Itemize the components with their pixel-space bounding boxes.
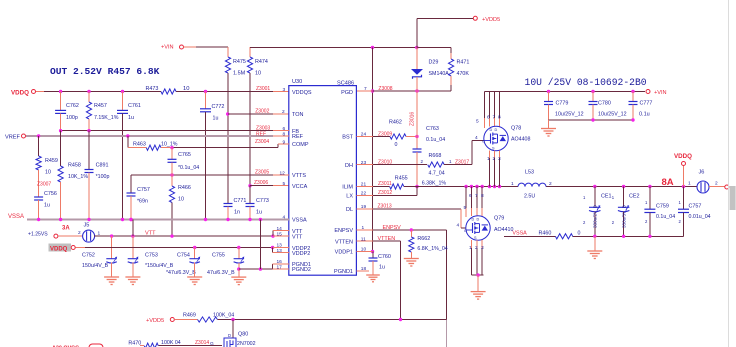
svg-text:C780: C780: [598, 101, 611, 107]
svg-text:23: 23: [361, 160, 367, 166]
svg-text:3: 3: [498, 156, 501, 162]
inductor L53: [511, 170, 552, 200]
port +VIN top: [161, 44, 196, 50]
wire VCCA line Z3006: [248, 180, 288, 187]
svg-text:G: G: [482, 139, 485, 143]
svg-text:G: G: [464, 229, 467, 233]
transistor Q78 AO4408: [476, 92, 530, 187]
wire PGND1 right: [356, 266, 369, 272]
node VSSA right: [512, 230, 527, 236]
svg-text:CE1: CE1: [601, 194, 612, 200]
svg-text:C779: C779: [556, 101, 569, 107]
svg-text:VSSA: VSSA: [512, 230, 527, 236]
svg-text:U30: U30: [292, 79, 302, 85]
svg-text:14: 14: [277, 226, 283, 232]
wire VDDQ bottom: [85, 243, 289, 254]
svg-text:R475: R475: [233, 59, 246, 65]
svg-text:BST: BST: [342, 135, 353, 141]
svg-text:10: 10: [361, 247, 367, 253]
svg-text:PGND1: PGND1: [334, 269, 353, 275]
svg-text:5: 5: [464, 205, 467, 211]
node VSSA rail: [8, 214, 289, 221]
svg-text:Z3014: Z3014: [195, 340, 209, 346]
svg-text:D: D: [472, 218, 475, 222]
capacitor C891: [85, 131, 110, 220]
svg-text:VDDQS: VDDQS: [292, 90, 312, 96]
svg-text:+VDD5: +VDD5: [146, 318, 164, 324]
svg-text:VDDQ: VDDQ: [11, 90, 29, 97]
svg-text:0.01u_04: 0.01u_04: [689, 214, 711, 220]
svg-text:TON: TON: [292, 112, 304, 118]
svg-text:AO4410: AO4410: [494, 227, 513, 233]
svg-text:D: D: [228, 333, 231, 338]
wire LX pin Z3012: [356, 187, 417, 197]
resistor R475: [225, 47, 245, 110]
svg-text:R668: R668: [429, 153, 442, 159]
svg-text:1: 1: [511, 181, 514, 187]
svg-text:0.1u_04: 0.1u_04: [426, 137, 445, 143]
svg-text:+VIN: +VIN: [654, 90, 667, 96]
svg-text:ILIM: ILIM: [342, 185, 353, 191]
scrollbar thumb: [730, 186, 736, 210]
svg-text:R455: R455: [395, 176, 408, 182]
svg-text:R458: R458: [68, 163, 81, 169]
svg-text:REF: REF: [292, 134, 304, 140]
svg-text:C755: C755: [212, 253, 225, 259]
text 3A: [62, 226, 70, 232]
svg-text:0.1u: 0.1u: [639, 112, 650, 118]
capacitor C757 left: [127, 175, 150, 221]
ground output: [587, 236, 602, 258]
svg-text:C761: C761: [128, 103, 141, 109]
svg-text:R466: R466: [178, 185, 191, 191]
node Z3007: [37, 182, 51, 188]
ground R662: [404, 254, 419, 267]
svg-text:150u/4V_B: 150u/4V_B: [82, 263, 109, 269]
svg-text:470K: 470K: [457, 71, 470, 77]
svg-text:COMP: COMP: [292, 142, 309, 148]
svg-text:8A: 8A: [662, 177, 674, 188]
svg-text:AO4408: AO4408: [511, 137, 530, 143]
svg-text:D: D: [495, 128, 498, 132]
svg-text:7: 7: [493, 115, 496, 121]
svg-text:16: 16: [277, 259, 283, 265]
svg-text:*0.1u_04: *0.1u_04: [178, 165, 199, 171]
svg-text:J5: J5: [84, 223, 90, 229]
svg-text:C759: C759: [656, 204, 669, 210]
capacitor C757 right: [678, 187, 711, 237]
text 8A: [662, 177, 674, 188]
svg-text:5: 5: [476, 119, 479, 125]
svg-text:330u/3V_D: 330u/3V_D: [621, 204, 626, 228]
svg-text:18: 18: [361, 266, 367, 272]
svg-text:R474: R474: [255, 59, 268, 65]
connector J5: [78, 223, 101, 243]
svg-text:7: 7: [364, 86, 367, 92]
svg-text:*47u/6.3V_B: *47u/6.3V_B: [166, 270, 196, 276]
svg-text:ENPSV: ENPSV: [334, 228, 353, 234]
svg-text:+VDD5: +VDD5: [482, 17, 500, 23]
svg-text:Q80: Q80: [238, 332, 248, 338]
transistor Q79 AO4410: [464, 187, 514, 276]
svg-text:1: 1: [469, 245, 472, 251]
capacitor C755: [207, 248, 246, 285]
svg-text:7: 7: [475, 193, 478, 199]
svg-text:8: 8: [498, 115, 501, 121]
svg-text:VTTEN: VTTEN: [335, 239, 353, 245]
svg-text:C771: C771: [234, 198, 247, 204]
wire VTTS line Z3005: [131, 170, 289, 177]
svg-text:J6: J6: [699, 170, 705, 176]
capacitor C773: [246, 186, 269, 220]
svg-text:330u/2V_D: 330u/2V_D: [593, 204, 598, 228]
ground Q79: [471, 275, 486, 299]
title text OUT 2.52V R457 6.8K: [50, 66, 160, 77]
svg-text:3: 3: [283, 87, 286, 93]
capacitor C777: [629, 92, 653, 121]
resistor R460: [539, 230, 581, 239]
svg-text:VDDP1: VDDP1: [335, 250, 353, 256]
svg-text:PGD: PGD: [341, 90, 353, 96]
svg-text:C756: C756: [44, 191, 57, 197]
svg-text:R469: R469: [183, 313, 196, 319]
port VDDQ boxed: [49, 244, 86, 253]
port +VDD5 bottom: [146, 318, 198, 325]
svg-text:Z3012: Z3012: [378, 190, 392, 196]
wire ENPSV: [356, 225, 446, 347]
resistor R462: [389, 120, 417, 149]
svg-text:OUT 2.52V R457 6.8K: OUT 2.52V R457 6.8K: [50, 66, 160, 77]
scrollbar track: [727, 0, 729, 347]
wire DL Z3013: [356, 204, 466, 229]
svg-text:6.8K_1%_04: 6.8K_1%_04: [417, 246, 447, 252]
capacitor C759: [644, 187, 675, 237]
svg-text:1: 1: [362, 225, 365, 231]
wire R475 to TON and C771: [226, 73, 229, 203]
svg-text:C763: C763: [426, 126, 439, 132]
pin 3 VDDQS: [256, 86, 286, 93]
svg-text:Q79: Q79: [494, 216, 504, 222]
wire ILIM Z3011: [356, 181, 392, 188]
svg-text:0.1u_04: 0.1u_04: [656, 214, 675, 220]
svg-text:C772: C772: [212, 104, 225, 110]
svg-text:C773: C773: [256, 198, 269, 204]
resistor R470: [128, 340, 222, 347]
svg-text:VDDQ: VDDQ: [674, 153, 692, 160]
svg-text:C754: C754: [177, 253, 190, 259]
svg-text:VTTS: VTTS: [292, 173, 306, 179]
svg-text:15: 15: [277, 231, 283, 237]
svg-text:100p: 100p: [66, 115, 78, 121]
svg-text:CE2: CE2: [629, 194, 640, 200]
svg-text:0: 0: [578, 230, 581, 236]
capacitor C761: [117, 92, 141, 220]
wire PGD line Z3008: [356, 86, 451, 93]
port +VDD5: [417, 16, 500, 47]
resistor R455: [390, 176, 447, 190]
svg-text:C762: C762: [66, 103, 79, 109]
wire VTT: [94, 226, 289, 238]
node Z3016: [410, 91, 419, 138]
svg-text:4: 4: [475, 135, 478, 141]
svg-text:Z3017: Z3017: [455, 159, 469, 165]
resistor R474: [247, 47, 267, 186]
svg-text:Z3004: Z3004: [255, 139, 269, 145]
diode D29 SM140A: [411, 48, 449, 92]
svg-text:D: D: [477, 218, 480, 222]
wire output gnd bus: [504, 235, 684, 238]
svg-text:10u/25V_12: 10u/25V_12: [555, 112, 584, 118]
capacitor C779: [544, 92, 584, 121]
svg-text:1n: 1n: [234, 210, 240, 216]
svg-text:C753: C753: [145, 253, 158, 259]
svg-text:Z3008: Z3008: [378, 86, 392, 92]
svg-text:C777: C777: [640, 101, 653, 107]
capacitor C752: [82, 236, 119, 284]
svg-text:*69n: *69n: [137, 199, 148, 205]
svg-text:1: 1: [98, 230, 101, 236]
svg-text:1u: 1u: [128, 115, 134, 121]
svg-text:*150u/4V_B: *150u/4V_B: [145, 263, 174, 269]
svg-text:C760: C760: [378, 254, 391, 260]
svg-text:Z3006: Z3006: [254, 180, 268, 186]
svg-text:13: 13: [277, 248, 283, 254]
svg-text:100K_04: 100K_04: [213, 313, 234, 319]
svg-text:10: 10: [178, 197, 184, 203]
svg-text:2.5U: 2.5U: [524, 194, 535, 200]
svg-text:7.15K_1%: 7.15K_1%: [94, 115, 119, 121]
svg-text:C757: C757: [137, 187, 150, 193]
resistor R668: [421, 153, 453, 176]
svg-text:C891: C891: [96, 163, 109, 169]
resistor R459: [36, 136, 58, 197]
svg-text:6: 6: [283, 126, 286, 132]
svg-text:4: 4: [457, 223, 460, 229]
svg-text:VTT: VTT: [145, 231, 156, 237]
svg-text:DH: DH: [345, 163, 353, 169]
svg-text:8: 8: [481, 193, 484, 199]
svg-text:SM140A: SM140A: [429, 71, 450, 77]
wire Q79 source bus: [471, 273, 483, 276]
capacitor C753: [125, 236, 173, 284]
svg-text:1: 1: [487, 156, 490, 162]
capacitor CE2: [612, 187, 640, 237]
svg-text:D29: D29: [429, 59, 439, 65]
wire +VIN to R475: [196, 46, 228, 48]
svg-text:SC486: SC486: [337, 81, 354, 87]
capacitor C772: [200, 92, 224, 220]
wire DH Z3010: [356, 159, 427, 165]
wire +VDD5 vertical: [371, 48, 374, 254]
svg-text:4.7_04: 4.7_04: [429, 170, 445, 176]
port +VIN right: [646, 90, 667, 97]
svg-text:2: 2: [78, 230, 81, 236]
wire FB line Z3003: [59, 126, 289, 133]
svg-text:R457: R457: [94, 103, 107, 109]
svg-text:2: 2: [282, 109, 285, 115]
wire VSSA to VTT seg: [132, 220, 134, 237]
resistor R471: [449, 48, 470, 92]
svg-text:VTTEN: VTTEN: [378, 236, 396, 242]
node REF: [26, 131, 289, 137]
connector J6: [688, 170, 729, 194]
wire TON line Z3002: [228, 109, 289, 116]
port VDDQ right: [674, 153, 692, 187]
capacitor C771: [224, 198, 247, 220]
resistor R469: [183, 313, 234, 323]
wire COMP Z3004: [172, 139, 289, 148]
svg-text:10: 10: [255, 71, 261, 77]
svg-text:Z3010: Z3010: [378, 159, 392, 165]
svg-text:VSSA: VSSA: [292, 218, 307, 224]
svg-text:C765: C765: [178, 152, 191, 158]
wire input rail: [485, 90, 646, 93]
wire +VDD5 top: [250, 46, 451, 49]
capacitor C763: [413, 126, 446, 188]
svg-text:100K 04: 100K 04: [161, 340, 181, 346]
resistor R662: [409, 230, 448, 254]
svg-text:0: 0: [395, 142, 398, 148]
svg-text:Q78: Q78: [511, 126, 521, 132]
svg-text:9: 9: [283, 139, 286, 145]
svg-text:21: 21: [361, 182, 367, 188]
svg-text:17: 17: [277, 264, 283, 270]
resistor R458: [58, 131, 88, 220]
note text 10U /25V 08-10692-2B0: [525, 77, 647, 88]
svg-text:R662: R662: [417, 236, 430, 242]
svg-text:2: 2: [493, 156, 496, 162]
svg-text:Z3001: Z3001: [256, 86, 270, 92]
svg-text:REF: REF: [256, 131, 266, 137]
svg-text:R473: R473: [146, 86, 159, 92]
capacitor C756: [34, 191, 57, 220]
svg-text:10u/25V_12: 10u/25V_12: [598, 112, 627, 118]
svg-text:R459: R459: [45, 158, 58, 164]
svg-text:R463: R463: [133, 142, 146, 148]
ground C760: [366, 266, 380, 282]
svg-text:6: 6: [487, 115, 490, 121]
text A20 OVCC: [52, 344, 108, 347]
svg-text:L53: L53: [525, 170, 534, 176]
svg-text:1u: 1u: [379, 265, 385, 271]
svg-text:10K_1%: 10K_1%: [68, 174, 88, 180]
resistor R463: [128, 136, 178, 150]
svg-text:19: 19: [361, 204, 367, 210]
transistor Q80 2N7002: [224, 320, 256, 347]
wire PGND to VSSA: [259, 220, 261, 270]
svg-text:1: 1: [688, 181, 691, 187]
svg-text:VSSA: VSSA: [8, 214, 24, 220]
svg-text:Z3007: Z3007: [37, 182, 51, 188]
port +1.25VS: [28, 231, 82, 238]
svg-text:VDDP2: VDDP2: [292, 251, 310, 257]
svg-text:24: 24: [361, 132, 367, 138]
svg-text:G: G: [210, 341, 214, 347]
svg-text:C757: C757: [689, 204, 702, 210]
svg-text:6.38K_1%: 6.38K_1%: [422, 181, 447, 187]
svg-text:12: 12: [280, 170, 286, 176]
svg-text:DL: DL: [346, 207, 353, 213]
svg-text:VDDQ: VDDQ: [50, 246, 68, 252]
wire VDDP1 C760: [356, 247, 390, 271]
capacitor C754: [166, 248, 202, 285]
svg-text:1u: 1u: [256, 210, 262, 216]
resistor R466: [169, 175, 190, 236]
svg-text:2: 2: [475, 245, 478, 251]
svg-text:2: 2: [549, 181, 552, 187]
svg-text:+1.25VS: +1.25VS: [28, 231, 48, 237]
port VREF: [5, 134, 26, 141]
svg-text:13: 13: [277, 243, 283, 249]
svg-text:R471: R471: [457, 59, 470, 65]
capacitor CE1: [583, 187, 612, 237]
svg-text:C752: C752: [82, 253, 95, 259]
svg-text:*100p: *100p: [96, 174, 110, 180]
svg-text:ENPSV: ENPSV: [383, 225, 402, 231]
port VDDQ left: [11, 90, 44, 97]
capacitor C780: [589, 92, 627, 121]
svg-text:Z3013: Z3013: [378, 204, 392, 210]
svg-text:1u: 1u: [44, 203, 50, 209]
svg-text:Z3005: Z3005: [255, 170, 269, 176]
svg-text:VREF: VREF: [5, 135, 21, 141]
ground input caps: [541, 120, 556, 136]
svg-text:22: 22: [361, 191, 367, 197]
wire VTTEN: [356, 236, 400, 320]
wire PGND: [239, 259, 289, 271]
wire Z3017 to Q78 gate: [444, 135, 484, 165]
svg-text:2N7002: 2N7002: [237, 341, 256, 347]
resistor R473: [146, 86, 190, 94]
svg-text:1.5M: 1.5M: [233, 71, 246, 77]
svg-text:47u/6.3V_B: 47u/6.3V_B: [207, 270, 235, 276]
svg-text:D: D: [490, 128, 493, 132]
svg-text:Z3011: Z3011: [378, 181, 392, 187]
resistor R457: [86, 92, 118, 131]
svg-text:VTT: VTT: [292, 235, 303, 241]
svg-text:10U /25V 08-10692-2B0: 10U /25V 08-10692-2B0: [525, 77, 647, 88]
svg-text:3: 3: [481, 245, 484, 251]
pin 4 VSSA: [283, 215, 286, 221]
svg-text:10: 10: [45, 170, 51, 176]
svg-text:+VIN: +VIN: [161, 44, 174, 50]
svg-text:6: 6: [469, 193, 472, 199]
svg-text:R462: R462: [389, 120, 402, 126]
wire EN node: [217, 318, 446, 321]
svg-text:8: 8: [283, 131, 286, 137]
svg-text:11: 11: [361, 236, 366, 242]
svg-text:Z3002: Z3002: [255, 109, 269, 115]
wire LX power line: [404, 185, 697, 188]
IC U30 SC486: [289, 79, 357, 275]
wire BST Z3009: [356, 131, 392, 137]
svg-text:10_1%: 10_1%: [161, 142, 178, 148]
svg-text:Z3016: Z3016: [410, 112, 416, 126]
svg-text:PGND2: PGND2: [292, 267, 311, 273]
wire input cap bus: [549, 118, 635, 121]
svg-text:LX: LX: [346, 194, 353, 200]
svg-text:VCCA: VCCA: [292, 184, 308, 190]
capacitor C762: [55, 92, 79, 131]
svg-text:5: 5: [283, 181, 286, 187]
svg-text:R460: R460: [539, 230, 552, 236]
wire VDDQ rail: [44, 90, 289, 93]
svg-text:1u: 1u: [213, 115, 219, 121]
svg-text:10: 10: [183, 86, 189, 92]
svg-text:2: 2: [715, 181, 718, 187]
capacitor C765: [168, 148, 200, 175]
svg-text:3A: 3A: [62, 226, 70, 232]
